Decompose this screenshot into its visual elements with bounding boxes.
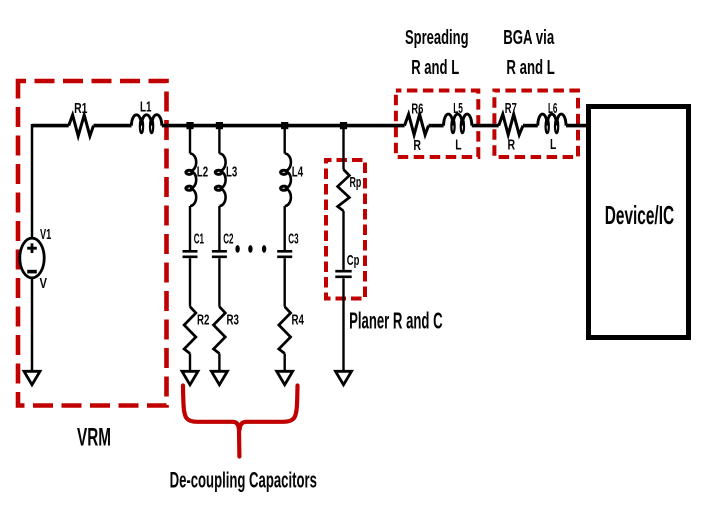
inductor L3 bbox=[215, 154, 237, 207]
svg-text:L4: L4 bbox=[292, 163, 304, 180]
svg-text:Device/IC: Device/IC bbox=[605, 200, 674, 230]
wire branch3 mid2 bbox=[284, 258, 286, 307]
source V1 bbox=[20, 226, 52, 292]
wire main left segment bbox=[32, 124, 69, 128]
svg-text:R1: R1 bbox=[74, 100, 87, 117]
svg-text:Planer R and C: Planer R and C bbox=[349, 307, 443, 333]
ellipsis dots bbox=[235, 245, 266, 253]
node junction 1 bbox=[186, 122, 193, 129]
wire branch1 top bbox=[189, 127, 191, 154]
svg-text:De-coupling Capacitors: De-coupling Capacitors bbox=[170, 467, 317, 492]
capacitor C3 bbox=[277, 230, 298, 256]
wire branch2 bottom bbox=[218, 354, 220, 373]
capacitor C2 bbox=[212, 230, 234, 256]
wire branch3 top bbox=[284, 127, 286, 154]
svg-text:C1: C1 bbox=[194, 230, 204, 247]
wire branch1 bottom bbox=[189, 354, 191, 373]
wire R7 to L6 bbox=[523, 124, 538, 128]
resistor Rp bbox=[338, 170, 362, 211]
wire planar bottom bbox=[342, 278, 344, 372]
svg-text:R7: R7 bbox=[505, 100, 517, 117]
Planer R and C dashed box bbox=[326, 160, 365, 299]
wire L1 to spreading box bbox=[162, 124, 405, 128]
wire branch2 top bbox=[218, 127, 220, 154]
wire branch3 bottom bbox=[284, 354, 286, 373]
wire planar top bbox=[342, 127, 344, 170]
Device/IC box bbox=[589, 107, 689, 338]
svg-text:Cp: Cp bbox=[347, 252, 360, 269]
svg-text:L6: L6 bbox=[548, 100, 557, 117]
VRM dashed box bbox=[18, 81, 167, 406]
inductor L2 bbox=[186, 154, 208, 207]
wire branch2 mid2 bbox=[218, 258, 220, 307]
wire V1 to ground bbox=[31, 278, 34, 372]
svg-text:R and L: R and L bbox=[411, 57, 459, 79]
svg-text:C2: C2 bbox=[223, 230, 233, 247]
svg-text:C3: C3 bbox=[288, 230, 298, 247]
resistor R6 bbox=[405, 101, 429, 155]
svg-text:Spreading: Spreading bbox=[405, 27, 469, 49]
svg-text:V1: V1 bbox=[40, 226, 51, 243]
svg-text:L1: L1 bbox=[140, 99, 152, 116]
svg-text:R3: R3 bbox=[227, 312, 239, 329]
label BGA via R and L bbox=[503, 27, 555, 79]
wire planar mid bbox=[342, 211, 344, 270]
svg-text:VRM: VRM bbox=[77, 424, 111, 452]
ground branch3 bbox=[277, 371, 293, 385]
svg-text:Rp: Rp bbox=[350, 174, 362, 191]
svg-text:BGA via: BGA via bbox=[503, 27, 555, 49]
svg-text:R4: R4 bbox=[292, 312, 305, 329]
wire branch3 mid1 bbox=[284, 206, 286, 250]
ground planar bbox=[336, 371, 352, 385]
inductor L1 bbox=[131, 99, 161, 134]
svg-text:L: L bbox=[550, 136, 556, 153]
resistor R7 bbox=[499, 100, 523, 153]
wire branch1 mid2 bbox=[189, 258, 191, 307]
wire L5 to R7 bbox=[472, 124, 499, 128]
wire VRM vertical upper bbox=[31, 124, 34, 239]
svg-text:L5: L5 bbox=[453, 100, 463, 117]
wire branch2 mid1 bbox=[218, 206, 220, 250]
svg-text:R6: R6 bbox=[411, 101, 423, 118]
svg-text:L2: L2 bbox=[197, 163, 208, 180]
svg-text:R and L: R and L bbox=[506, 57, 555, 79]
svg-text:L: L bbox=[455, 136, 461, 153]
wire R6 to L5 bbox=[429, 124, 444, 128]
node junction 3 bbox=[281, 122, 288, 129]
resistor R3 bbox=[214, 307, 239, 354]
Spreading R and L dashed box bbox=[396, 91, 478, 158]
wire L6 to device bbox=[566, 124, 588, 128]
svg-text:R: R bbox=[508, 137, 516, 154]
ground branch1 bbox=[182, 371, 198, 385]
resistor R4 bbox=[279, 307, 305, 354]
svg-text:R: R bbox=[413, 137, 421, 154]
inductor L4 bbox=[281, 154, 304, 207]
ground VRM bbox=[24, 371, 40, 385]
label Spreading R and L bbox=[405, 27, 469, 79]
resistor R2 bbox=[184, 307, 209, 354]
svg-text:R2: R2 bbox=[197, 312, 209, 329]
wire branch1 mid1 bbox=[189, 206, 191, 250]
node junction 4 bbox=[340, 122, 347, 129]
node junction 2 bbox=[216, 122, 223, 129]
wire R1 to L1 bbox=[94, 124, 132, 128]
inductor L5 bbox=[444, 100, 472, 153]
resistor R1 bbox=[69, 115, 94, 136]
svg-text:L3: L3 bbox=[226, 163, 237, 180]
brace de-coupling bbox=[183, 386, 298, 457]
inductor L6 bbox=[538, 100, 566, 153]
capacitor C1 bbox=[183, 230, 205, 256]
svg-text:V: V bbox=[40, 275, 48, 292]
ground branch2 bbox=[211, 371, 227, 385]
BGA via R and L dashed box bbox=[494, 91, 578, 158]
capacitor Cp bbox=[335, 252, 359, 277]
